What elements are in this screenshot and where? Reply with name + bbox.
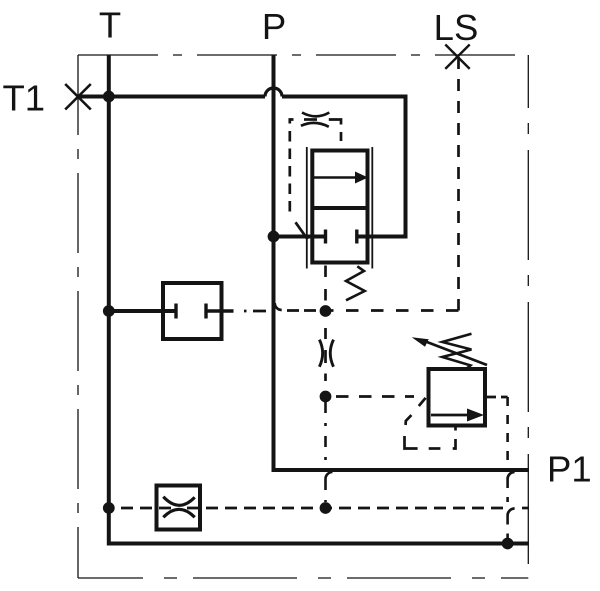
enclosure boundary (valve block frame) [78,55,528,578]
wire: T1 line right part, down to compensator right port [282,97,406,237]
port T1 plugged cross [65,84,91,110]
svg-text:P1: P1 [547,449,592,490]
junction dot: relief pilot [320,391,332,403]
plug box left T plug [174,304,177,319]
crossover hop of drain over P1 run [508,472,515,479]
crossover hop of drain over bleed gallery [508,509,515,516]
wire: P to compensator left port [274,235,326,239]
junction dot: T x plug line [103,305,115,317]
relief valve RV1: adjustment arrow [423,341,487,366]
plug box (blocked gallery) [163,283,222,339]
pilot line: right drop dash [340,132,343,141]
boxed orifice (bleed restrictor) [157,486,201,530]
LS gallery: corner run to junction [330,309,459,312]
pilot line: compensator top pilot, right corner dash [329,120,341,125]
relief valve RV1: spring [442,334,471,369]
pilot line: junction to relief valve inlet [336,395,414,398]
crossover hop of T1 line over P line [265,88,282,97]
svg-text:LS: LS [434,7,479,48]
pilot tap tick at relief inlet [419,398,426,406]
bleed gallery: dashed line y=508 right section [187,507,503,510]
wire: T line (vertical) with bottom run to right border [109,55,529,544]
svg-text:T1: T1 [3,78,46,119]
pilot line: relief pilot junction down across P1 line [324,402,327,464]
compensator valve U1: position divider [312,206,368,210]
LS gallery: dashed from junction toward P crossover [282,309,316,312]
junction dot: P x compensator port [268,231,280,243]
junction dot: drain x bottom run [502,538,514,550]
relief valve RV1: body [429,369,486,426]
orifice (pilot restrictor) above compensator [301,113,329,127]
dash-dot link plug box to P crossover [244,310,269,313]
compensator valve U1: closed-position right plug T [355,230,358,244]
junction dot: T x T1 [103,91,115,103]
bleed gallery: final dash at border [522,507,529,510]
compensator valve U1: closed-position left plug T [324,230,327,244]
wire: T line to plug box [109,309,176,313]
relief valve RV1: flow arrow [431,414,468,417]
wire: T1 horizontal line, left part [78,95,266,99]
LS gallery: dashed from LS cross down to corner [457,57,460,311]
port LS plugged cross [445,45,469,69]
junction dot: T x bleed gallery [103,502,115,514]
pilot line: left vertical drop [288,131,291,218]
junction dot: LS gallery x bleed drop [320,305,332,317]
pilot line: compensator spring drain to LS gallery [324,266,327,307]
svg-text:T: T [99,5,121,46]
plug box right T plug [204,304,207,319]
pilot line: left corner dash [290,120,294,124]
relief valve outlet to drain gallery [485,396,508,399]
pilot tap tick into P port line [296,222,308,239]
svg-text:P: P [262,6,286,47]
pilot line: throat dash [304,118,317,121]
crossover hop of relief line under P1 run [326,472,333,479]
orifice (vertical) in LS bleed line [324,328,327,381]
bleed gallery: dashed line y=508 left section [121,507,171,510]
compensator valve U1: body [312,151,367,263]
compensator valve U1: spool end rails [307,147,373,269]
crossover hop of LS gallery over P line [275,303,282,310]
compensator valve U1: open-position flow arrow [314,176,356,179]
wire: P line (vertical) turning right to P1 [274,55,530,470]
junction dot: bleed gallery x relief line [320,502,332,514]
relief valve drain loop (dashed) [406,415,412,425]
compensator valve U1: spring [346,266,365,300]
